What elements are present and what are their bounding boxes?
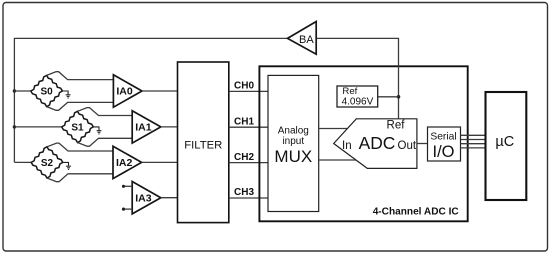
svg-text:Serial: Serial	[430, 131, 456, 142]
svg-text:CH2: CH2	[234, 152, 254, 163]
node: IA3 lower input dot	[122, 208, 125, 211]
svg-text:CH3: CH3	[234, 187, 254, 198]
wire: S1 top output to IA1	[78, 108, 133, 116]
svg-text:ADC: ADC	[359, 133, 396, 153]
wire: IA3 upper input stub	[124, 185, 133, 187]
ground at S2	[63, 162, 71, 169]
wire: S0 left vertex to bus	[14, 90, 30, 92]
wire: CH1 FILTER to MUX	[229, 126, 268, 128]
wire: S2 bottom output to IA2	[47, 174, 113, 182]
serial I/O block	[428, 127, 461, 161]
wire: IA3 output to FILTER	[161, 197, 178, 199]
svg-text:IA1: IA1	[135, 122, 152, 134]
wire: ADC out to serial I/O	[417, 143, 428, 145]
wire: CH2 FILTER to MUX	[229, 162, 268, 164]
svg-text:S0: S0	[40, 86, 53, 97]
sensor bridge S0	[31, 75, 63, 106]
svg-text:Ref: Ref	[387, 120, 406, 132]
buffer amplifier BA	[288, 22, 317, 55]
svg-text:IA0: IA0	[116, 86, 132, 98]
analog input MUX	[268, 75, 319, 211]
wire: serial bus line 2	[461, 139, 486, 141]
wire: BA input from reference node	[316, 38, 398, 118]
op-amp IA0	[113, 75, 142, 107]
svg-text:Out: Out	[398, 140, 417, 152]
wire: S2 left vertex to bus	[14, 161, 31, 163]
wire: S0 bottom output to IA0	[47, 102, 114, 110]
wire: MUX to ADC upper	[319, 128, 347, 130]
wire: IA0 output to FILTER	[142, 90, 178, 92]
node: ref junction	[397, 95, 401, 99]
voltage reference Ref 4.096V	[337, 86, 378, 107]
svg-text:IA2: IA2	[116, 157, 133, 169]
node: junction bus-S0	[13, 89, 16, 92]
wire: serial bus line 1	[461, 134, 486, 136]
node: IA3 upper input dot	[122, 185, 125, 188]
filter block	[178, 62, 229, 223]
wire: BA output to left excitation bus	[14, 38, 287, 162]
svg-text:µC: µC	[495, 134, 514, 150]
ADC converter	[334, 119, 417, 169]
op-amp IA1	[132, 111, 161, 143]
svg-text:Ref: Ref	[342, 86, 357, 97]
wire: S1 bottom output to IA1	[78, 138, 133, 146]
sensor bridge S2	[31, 147, 63, 178]
wire: serial bus line 3	[461, 143, 486, 145]
wire: CH0 FILTER to MUX	[229, 90, 268, 92]
svg-text:I/O: I/O	[432, 143, 454, 161]
svg-text:4.096V: 4.096V	[342, 97, 374, 108]
4-channel ADC IC outline	[259, 66, 467, 221]
wire: IA1 output to FILTER	[161, 126, 178, 128]
wire: S0 top output to IA0	[47, 72, 114, 80]
svg-text:CH1: CH1	[234, 116, 254, 127]
svg-text:In: In	[342, 140, 352, 152]
ground at S1	[93, 127, 101, 134]
ground at S0	[62, 91, 70, 98]
wire: S1 left vertex to bus	[14, 126, 61, 128]
svg-text:4-Channel ADC IC: 4-Channel ADC IC	[373, 206, 460, 217]
node: junction bus-S1	[13, 125, 16, 128]
svg-text:IA3: IA3	[135, 192, 152, 204]
svg-text:BA: BA	[299, 34, 314, 46]
microcontroller uC	[486, 92, 527, 200]
sensor bridge S1	[62, 111, 94, 142]
svg-text:CH0: CH0	[234, 81, 254, 92]
wire: Ref box to junction	[378, 96, 399, 98]
wire: CH3 FILTER to MUX	[229, 197, 268, 199]
svg-text:S1: S1	[71, 122, 84, 133]
svg-text:FILTER: FILTER	[184, 139, 222, 151]
svg-text:MUX: MUX	[274, 147, 312, 166]
wire: IA2 output to FILTER	[142, 161, 178, 163]
wire: serial bus line 4	[461, 147, 486, 149]
op-amp IA2	[113, 146, 142, 178]
wire: S2 top output to IA2	[47, 143, 113, 151]
wire: MUX to ADC lower	[319, 159, 356, 161]
op-amp IA3	[132, 182, 161, 214]
wire: IA3 lower input stub	[124, 208, 133, 210]
svg-text:S2: S2	[41, 158, 54, 169]
svg-text:input: input	[282, 136, 304, 147]
